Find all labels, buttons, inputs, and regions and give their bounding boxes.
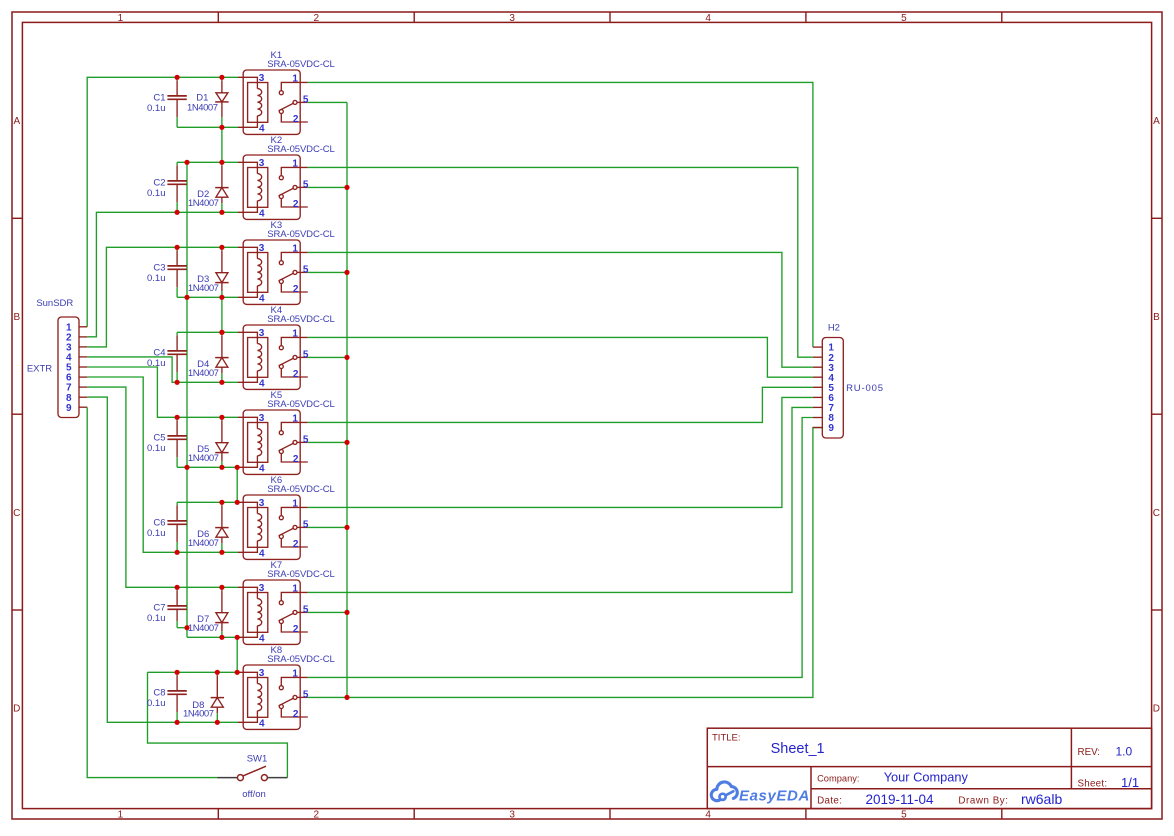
svg-text:1N4007: 1N4007 [188, 368, 219, 379]
junction dots row [0, 0, 1, 1]
relay K3 pin numbers 3,4,1,5,2 [259, 243, 309, 304]
svg-text:0.1u: 0.1u [147, 103, 166, 114]
svg-text:5: 5 [901, 809, 907, 820]
svg-text:SRA-05VDC-CL: SRA-05VDC-CL [267, 484, 334, 495]
label C6 0.1u [147, 517, 166, 539]
label C3 0.1u [147, 262, 166, 284]
svg-text:1: 1 [292, 668, 298, 679]
title block [707, 728, 1151, 808]
svg-text:RU-005: RU-005 [846, 383, 884, 394]
connector H2 RU-005 [813, 338, 843, 439]
label K7 SRA-05VDC-CL [267, 560, 334, 580]
svg-text:C6: C6 [153, 517, 165, 528]
wire common link row7 bottom to row8 top [236, 637, 238, 672]
svg-text:4: 4 [259, 463, 265, 474]
capacitor C2 [167, 162, 186, 212]
frame row labels left [13, 116, 20, 715]
svg-text:2: 2 [293, 454, 299, 465]
wire common link row1 bottom to row2 top [221, 127, 223, 162]
svg-text:0.1u: 0.1u [147, 698, 166, 709]
diode D6 [215, 502, 228, 552]
svg-text:B: B [13, 312, 20, 323]
wire K3 row bottom [177, 296, 238, 298]
svg-text:2: 2 [293, 709, 299, 720]
svg-text:1N4007: 1N4007 [188, 538, 219, 549]
label K8 SRA-05VDC-CL [267, 645, 334, 665]
svg-text:SRA-05VDC-CL: SRA-05VDC-CL [267, 314, 334, 325]
label SW1 off/on [242, 753, 267, 800]
svg-text:A: A [13, 116, 20, 127]
wire K4 pin5 to bus [308, 356, 347, 358]
relay K1 [238, 70, 308, 134]
svg-text:C1: C1 [153, 92, 165, 103]
svg-text:C8: C8 [153, 687, 165, 698]
label D5 1N4007 [188, 444, 219, 464]
svg-text:2019-11-04: 2019-11-04 [866, 792, 935, 807]
svg-text:1: 1 [292, 328, 298, 339]
svg-text:SRA-05VDC-CL: SRA-05VDC-CL [267, 59, 334, 70]
junction dots row [0, 0, 1, 1]
svg-text:H2: H2 [828, 322, 840, 333]
wire K6 pin1 to H2 pin6 [308, 397, 813, 507]
frame column labels top [118, 13, 908, 24]
svg-text:1N4007: 1N4007 [183, 709, 214, 720]
frame row labels right [1153, 116, 1160, 715]
relay K8 [238, 665, 308, 729]
wire K4 pin1 to H2 pin4 [308, 337, 813, 377]
svg-text:C3: C3 [153, 262, 165, 273]
relay K6 [238, 495, 308, 559]
svg-text:4: 4 [259, 718, 265, 729]
svg-text:SRA-05VDC-CL: SRA-05VDC-CL [267, 654, 334, 665]
relay K5 [238, 410, 308, 474]
wire K3 pin5 to bus [308, 271, 347, 273]
relay K7 [238, 580, 308, 644]
svg-text:Date:: Date: [817, 796, 842, 807]
title block texts [712, 733, 1139, 808]
diode D7 [215, 587, 228, 637]
EasyEDA logo [711, 782, 737, 801]
junction dots row [0, 0, 1, 1]
label K5 SRA-05VDC-CL [267, 390, 334, 410]
junction dots [175, 75, 350, 725]
svg-text:1: 1 [292, 413, 298, 424]
wire K6 pin5 to bus [308, 526, 347, 528]
wire K1 pin1 to H2 pin1 [308, 82, 813, 347]
svg-text:EasyEDA: EasyEDA [739, 788, 810, 805]
svg-text:1N4007: 1N4007 [187, 102, 218, 113]
svg-text:SRA-05VDC-CL: SRA-05VDC-CL [267, 569, 334, 580]
svg-text:5: 5 [303, 689, 309, 700]
label C7 0.1u [147, 602, 166, 624]
svg-text:9: 9 [828, 423, 834, 434]
svg-text:3: 3 [259, 158, 265, 169]
wire row8 top to SW1 [148, 672, 288, 777]
svg-text:9: 9 [66, 403, 72, 414]
label D1 1N4007 [187, 93, 218, 114]
label K6 SRA-05VDC-CL [267, 475, 334, 495]
relay K5 pin numbers 3,4,1,5,2 [259, 413, 309, 474]
label K2 SRA-05VDC-CL [267, 135, 334, 155]
relay K1 pin numbers 3,4,1,5,2 [259, 73, 309, 134]
label C5 0.1u [147, 432, 166, 454]
wire K3 pin1 to H2 pin3 [308, 252, 813, 367]
svg-text:5: 5 [303, 434, 309, 445]
svg-text:1N4007: 1N4007 [188, 453, 219, 464]
relay K4 [238, 325, 308, 389]
svg-text:0.1u: 0.1u [147, 188, 166, 199]
label D2 1N4007 [188, 189, 219, 209]
svg-text:0.1u: 0.1u [147, 443, 166, 454]
svg-text:Company:: Company: [817, 773, 859, 783]
wire common link row5 bottom to row6 top [236, 467, 238, 502]
relay K7 pin numbers 3,4,1,5,2 [259, 583, 309, 644]
capacitor C6 [167, 502, 186, 552]
junction dots row [0, 0, 1, 1]
svg-text:2: 2 [314, 809, 320, 820]
svg-text:5: 5 [303, 94, 309, 105]
svg-text:SW1: SW1 [247, 753, 268, 764]
svg-text:EXTR: EXTR [27, 363, 52, 374]
label K1 SRA-05VDC-CL [267, 50, 334, 70]
label C4 0.1u [147, 347, 166, 369]
svg-text:5: 5 [901, 13, 907, 24]
wire pin5 SunSDR to K5 row top [87, 367, 238, 417]
junction dots row [0, 0, 1, 1]
svg-text:2: 2 [293, 114, 299, 125]
svg-text:D: D [13, 704, 20, 715]
relay K8 pin numbers 3,4,1,5,2 [259, 668, 309, 729]
wire K1 pin5 to bus [308, 101, 347, 103]
svg-text:2: 2 [293, 369, 299, 380]
svg-text:0.1u: 0.1u [147, 528, 166, 539]
svg-text:5: 5 [303, 519, 309, 530]
svg-text:5: 5 [303, 264, 309, 275]
wire pin6 SunSDR to K6 row bottom [87, 377, 238, 552]
label D8 1N4007 [183, 700, 214, 720]
svg-text:3: 3 [259, 413, 265, 424]
svg-text:TITLE:: TITLE: [712, 733, 741, 744]
svg-text:C2: C2 [153, 177, 165, 188]
relay K3 [238, 240, 308, 304]
svg-text:2: 2 [293, 624, 299, 635]
capacitor C8 [167, 672, 186, 722]
wire pin7 SunSDR to K7 row top [87, 387, 238, 587]
svg-text:1N4007: 1N4007 [188, 623, 219, 634]
svg-text:0.1u: 0.1u [147, 613, 166, 624]
svg-text:SRA-05VDC-CL: SRA-05VDC-CL [267, 399, 334, 410]
svg-text:D: D [1153, 704, 1160, 715]
wire K8 row top (common) [148, 671, 239, 673]
svg-text:4: 4 [259, 123, 265, 134]
svg-text:3: 3 [259, 583, 265, 594]
svg-text:2: 2 [293, 539, 299, 550]
label D6 1N4007 [188, 529, 219, 549]
svg-text:5: 5 [303, 604, 309, 615]
wire K2 row top (common) [177, 161, 238, 163]
diode D4 [215, 332, 228, 382]
wire K6 row top (common) [177, 501, 238, 503]
junction dots row [0, 0, 1, 1]
relay K6 pin numbers 3,4,1,5,2 [259, 498, 309, 559]
svg-text:3: 3 [259, 498, 265, 509]
svg-text:B: B [1153, 312, 1160, 323]
label D4 1N4007 [188, 359, 219, 379]
svg-text:Your Company: Your Company [884, 769, 969, 784]
svg-text:4: 4 [259, 293, 265, 304]
svg-text:3: 3 [509, 809, 515, 820]
wire K7 pin1 to H2 pin7 [308, 407, 813, 592]
wire K2 pin5 to bus [308, 186, 347, 188]
diode D2 [215, 162, 228, 212]
svg-text:SRA-05VDC-CL: SRA-05VDC-CL [267, 144, 334, 155]
svg-text:REV:: REV: [1078, 747, 1101, 758]
svg-text:3: 3 [259, 73, 265, 84]
capacitor C4 [167, 332, 186, 382]
svg-text:5: 5 [303, 179, 309, 190]
wire K2 pin1 to H2 pin2 [308, 167, 813, 357]
svg-text:rw6alb: rw6alb [1021, 791, 1062, 807]
svg-text:4: 4 [259, 378, 265, 389]
wire K5 pin5 to bus [308, 441, 347, 443]
relay K4 pin numbers 3,4,1,5,2 [259, 328, 309, 389]
svg-text:C5: C5 [153, 432, 165, 443]
switch SW1 [217, 766, 287, 780]
wire pin2 SunSDR to K2 row bottom [87, 212, 238, 336]
junction dots row [0, 0, 1, 1]
wire pin4 SunSDR to K4 row bottom [87, 357, 238, 382]
wire common link row3 bottom to row4 top [221, 297, 223, 332]
svg-text:4: 4 [259, 633, 265, 644]
svg-text:4: 4 [259, 548, 265, 559]
diode D8 [211, 672, 224, 722]
connector SunSDR pin numbers 1-9 [66, 322, 72, 413]
wire C7 jog to common bus [177, 627, 187, 629]
diode D1 [215, 77, 228, 127]
svg-text:A: A [1153, 116, 1160, 127]
relay K2 [238, 155, 308, 219]
svg-text:C7: C7 [153, 602, 165, 613]
svg-text:0.1u: 0.1u [147, 273, 166, 284]
wire pin3 SunSDR to K3 row top [87, 247, 238, 347]
svg-text:off/on: off/on [242, 789, 266, 800]
label C1 0.1u [147, 92, 166, 114]
svg-text:2: 2 [293, 199, 299, 210]
wire K7 pin5 to bus [308, 611, 347, 613]
svg-text:4: 4 [705, 13, 711, 24]
svg-text:Sheet:: Sheet: [1078, 779, 1108, 790]
junction dots row [0, 0, 1, 1]
svg-text:C: C [13, 508, 20, 519]
capacitor C1 [167, 77, 186, 127]
wire K4 row top (common) [177, 331, 238, 333]
wire K8 pin1 to H2 pin8 [308, 418, 813, 678]
capacitor C5 [167, 417, 186, 467]
wire relay pin5 common bus vertical [346, 102, 348, 697]
svg-text:2: 2 [314, 13, 320, 24]
svg-text:3: 3 [259, 668, 265, 679]
wire pin9 SunSDR to SW1 [87, 407, 217, 777]
wire K5 row bottom [177, 466, 238, 468]
label D3 1N4007 [188, 274, 219, 294]
svg-text:Drawn By:: Drawn By: [958, 796, 1008, 807]
svg-text:4: 4 [705, 809, 711, 820]
wire pin1 SunSDR to K1 row top [87, 77, 238, 326]
label C2 0.1u [147, 177, 166, 199]
capacitor C3 [167, 247, 186, 297]
svg-text:1: 1 [292, 73, 298, 84]
capacitor C7 [167, 587, 186, 627]
svg-text:1: 1 [292, 243, 298, 254]
wire K7 row bottom from common bus [187, 636, 238, 638]
svg-text:1: 1 [118, 13, 124, 24]
svg-text:1: 1 [292, 583, 298, 594]
svg-text:1: 1 [292, 498, 298, 509]
wire K1 row bottom [177, 126, 238, 128]
label K4 SRA-05VDC-CL [267, 305, 334, 325]
wire pin8 SunSDR to K8 row bottom [87, 397, 238, 722]
svg-text:5: 5 [303, 349, 309, 360]
svg-text:C4: C4 [153, 347, 165, 358]
relay K2 pin numbers 3,4,1,5,2 [259, 158, 309, 219]
wire common vertical bus [186, 162, 188, 637]
svg-text:2: 2 [293, 284, 299, 295]
svg-text:1/1: 1/1 [1121, 775, 1139, 790]
diode D5 [215, 417, 228, 467]
svg-text:1: 1 [292, 158, 298, 169]
wire K5 pin1 to H2 pin5 [308, 387, 813, 422]
svg-text:SRA-05VDC-CL: SRA-05VDC-CL [267, 229, 334, 240]
connector SunSDR EXTR [58, 317, 87, 418]
svg-text:1N4007: 1N4007 [188, 283, 219, 294]
svg-text:3: 3 [259, 243, 265, 254]
svg-text:Sheet_1: Sheet_1 [771, 741, 825, 757]
svg-text:SunSDR: SunSDR [36, 298, 73, 309]
wire K8 pin5 to H2 pin9 [308, 428, 823, 698]
svg-text:3: 3 [259, 328, 265, 339]
label C8 0.1u [147, 687, 166, 709]
diode D3 [215, 247, 228, 297]
svg-text:1: 1 [118, 809, 124, 820]
svg-text:3: 3 [509, 13, 515, 24]
label D7 1N4007 [188, 614, 219, 634]
svg-text:1N4007: 1N4007 [188, 198, 219, 209]
label K3 SRA-05VDC-CL [267, 220, 334, 240]
connector H2 pin numbers 1-9 [828, 343, 834, 434]
svg-text:C: C [1153, 508, 1160, 519]
svg-text:4: 4 [259, 208, 265, 219]
frame column labels bottom [118, 809, 908, 820]
svg-text:1.0: 1.0 [1116, 744, 1133, 758]
